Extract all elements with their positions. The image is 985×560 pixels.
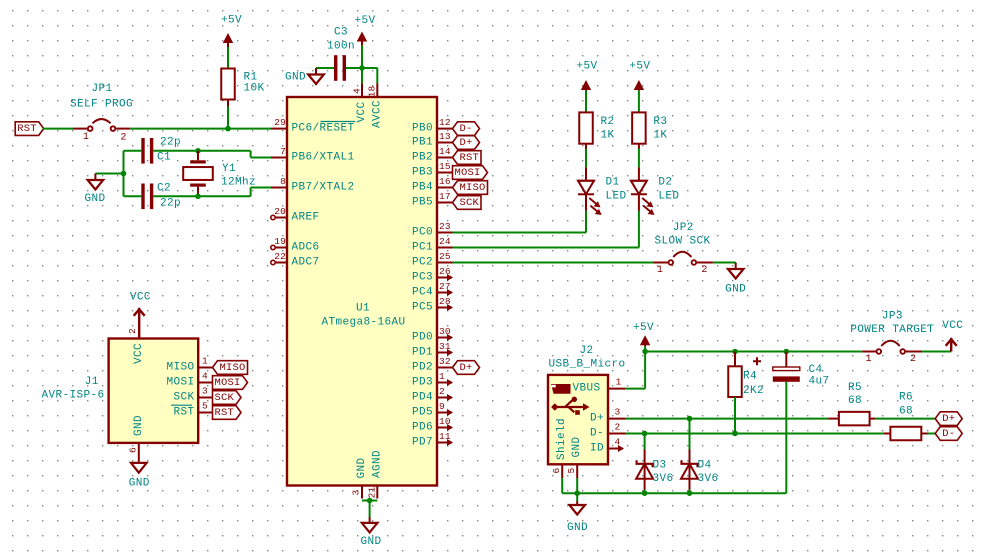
pin 4 stub (J1) xyxy=(198,382,213,384)
overline RST (J1) xyxy=(171,404,192,406)
svg-text:PD5: PD5 xyxy=(412,407,433,419)
svg-text:GND: GND xyxy=(285,72,306,84)
svg-text:D-: D- xyxy=(459,123,472,135)
svg-text:SELF PROG: SELF PROG xyxy=(70,99,133,111)
svg-text:PC2: PC2 xyxy=(412,257,433,269)
svg-text:18: 18 xyxy=(367,86,378,98)
svg-text:PD7: PD7 xyxy=(412,437,433,449)
svg-text:POWER TARGET: POWER TARGET xyxy=(850,324,934,336)
junction GND D3 xyxy=(642,490,648,496)
pin number 29 xyxy=(274,117,286,128)
pin 29 stub xyxy=(271,128,287,130)
pin name GND (J1) xyxy=(133,415,145,436)
pin name ID (J2) xyxy=(590,443,604,455)
svg-text:SCK: SCK xyxy=(459,197,479,209)
global label SCK (PB5) xyxy=(453,196,482,210)
power +5V (J2) xyxy=(633,322,654,346)
LED D1 xyxy=(578,177,627,216)
label SLOW SCK xyxy=(654,236,710,248)
pin number 6 (J1) xyxy=(128,447,139,453)
svg-text:100n: 100n xyxy=(327,41,355,53)
pin 13 stub xyxy=(437,142,453,144)
svg-text:PC6/RESET: PC6/RESET xyxy=(292,123,355,135)
wire GND rail xyxy=(562,492,786,494)
svg-text:2: 2 xyxy=(439,386,445,397)
pin number 19 xyxy=(274,236,286,247)
wire +5V to rail xyxy=(644,346,646,352)
pin name GND (3) xyxy=(356,457,368,478)
global label MOSI (PB3) xyxy=(453,166,488,180)
pin number 26 xyxy=(439,266,451,277)
svg-text:VCC: VCC xyxy=(356,101,368,122)
wire RST label to JP1 pin 1 xyxy=(43,128,74,130)
svg-text:MOSI: MOSI xyxy=(214,377,240,389)
svg-text:2: 2 xyxy=(701,265,707,276)
label J1 xyxy=(85,376,99,388)
svg-text:10: 10 xyxy=(439,416,451,427)
svg-text:GND: GND xyxy=(133,415,145,436)
wire C2 to Y1 bottom xyxy=(153,195,250,197)
svg-text:6: 6 xyxy=(128,447,139,453)
wire D1 to PC xyxy=(453,194,587,232)
power +5V (R3) xyxy=(629,61,650,91)
junction left GND node xyxy=(121,171,127,177)
svg-text:J2: J2 xyxy=(579,345,593,357)
svg-text:J1: J1 xyxy=(85,376,99,388)
power +5V (R2) xyxy=(576,61,597,91)
svg-text:LED: LED xyxy=(606,191,627,203)
svg-text:4u7: 4u7 xyxy=(809,375,830,387)
svg-text:D+: D+ xyxy=(459,137,472,149)
pin 31 stub xyxy=(437,349,453,356)
svg-text:PC1: PC1 xyxy=(412,242,433,254)
pin name PB5 xyxy=(412,197,433,209)
ground (U1) xyxy=(360,517,381,548)
pin name PD7 xyxy=(412,437,433,449)
wire VBUS to rail xyxy=(626,352,645,389)
svg-text:AVR-ISP-6: AVR-ISP-6 xyxy=(41,390,104,402)
svg-text:+5V: +5V xyxy=(576,61,597,73)
pin 2 stub xyxy=(437,394,453,401)
svg-text:5: 5 xyxy=(566,467,577,473)
pin 7 stub xyxy=(271,157,287,159)
pin number 3 xyxy=(351,489,362,495)
pin name D- (J2) xyxy=(590,428,604,440)
svg-text:+5V: +5V xyxy=(221,15,242,27)
svg-text:4: 4 xyxy=(615,437,621,448)
jumper JP1 arc xyxy=(93,119,111,123)
ground (J1) xyxy=(129,463,150,490)
pin name PC5 xyxy=(412,302,433,314)
svg-text:1: 1 xyxy=(657,265,663,276)
pin name VBUS (J2) xyxy=(573,383,601,395)
pin number 22 xyxy=(274,251,286,262)
svg-text:MOSI: MOSI xyxy=(454,167,480,179)
svg-text:MISO: MISO xyxy=(166,362,194,374)
resistor R2 xyxy=(579,112,614,143)
pin 28 stub xyxy=(437,304,453,311)
svg-text:25: 25 xyxy=(439,251,451,262)
wire AVCC pin 18 xyxy=(362,68,377,97)
global label SCK (J1) xyxy=(213,391,242,405)
wire JP1 pin2 to R1/pin29 xyxy=(130,128,271,130)
svg-text:VCC: VCC xyxy=(130,291,151,303)
pin number 9 xyxy=(439,401,445,412)
global label RST (PB2) xyxy=(453,151,482,165)
pin name RST (J1) xyxy=(173,407,194,419)
svg-text:PB5: PB5 xyxy=(412,197,433,209)
svg-text:ADC7: ADC7 xyxy=(292,257,320,269)
capacitor C2 xyxy=(141,183,181,210)
svg-text:4: 4 xyxy=(202,371,208,382)
diode D4 xyxy=(681,419,719,494)
pin name PD4 xyxy=(412,392,433,404)
wire R2 to D1 xyxy=(585,144,587,181)
capacitor C3 xyxy=(327,27,355,81)
resistor R3 xyxy=(632,112,667,143)
junction D3 top xyxy=(642,431,648,437)
pin 16 stub xyxy=(437,187,453,189)
svg-text:3: 3 xyxy=(351,489,362,495)
pin number 28 xyxy=(439,296,451,307)
op-amp U1 body (ATmega8-16AU) xyxy=(287,97,437,486)
resistor R6 xyxy=(884,391,928,440)
svg-text:VCC: VCC xyxy=(942,320,963,332)
pin 19 stub xyxy=(271,245,287,249)
svg-text:2: 2 xyxy=(910,354,916,365)
svg-text:24: 24 xyxy=(439,236,451,247)
pin 10 stub xyxy=(437,424,453,431)
svg-text:C1: C1 xyxy=(157,152,171,164)
svg-text:D3: D3 xyxy=(653,460,667,472)
pin name AVCC (18) xyxy=(371,100,383,128)
junction GND pin5 xyxy=(574,490,580,496)
svg-text:21: 21 xyxy=(367,487,378,499)
pin 1 stub (J1) xyxy=(198,367,213,369)
pin 32 stub xyxy=(437,367,453,369)
wire to GND (crystal) xyxy=(95,173,123,175)
pin name SCK (J1) xyxy=(173,392,194,404)
svg-text:D-: D- xyxy=(590,428,604,440)
pin name PB0 xyxy=(412,123,433,135)
label SELF PROG xyxy=(70,99,133,111)
svg-text:PB4: PB4 xyxy=(412,182,433,194)
pin 1 stub xyxy=(437,379,453,386)
label POWER TARGET xyxy=(850,324,934,336)
wire +5V to R2 xyxy=(585,91,587,113)
global label RST (J1) xyxy=(213,406,242,420)
LED D2 xyxy=(631,177,680,216)
svg-text:R6: R6 xyxy=(899,391,913,403)
junction rail C4 xyxy=(784,349,790,355)
pin 11 stub xyxy=(437,439,453,446)
wire C3 to GND xyxy=(316,67,334,69)
pin 5 stub (J1) xyxy=(198,412,213,414)
label U1 xyxy=(356,303,370,315)
wire Y1 bottom lead xyxy=(197,187,199,197)
svg-text:+5V: +5V xyxy=(633,322,654,334)
svg-text:PB1: PB1 xyxy=(412,137,433,149)
svg-text:LED: LED xyxy=(658,191,679,203)
svg-text:1K: 1K xyxy=(653,130,667,142)
pin name PB7/XTAL2 xyxy=(292,182,355,194)
svg-text:1: 1 xyxy=(83,132,89,143)
pin name PB4 xyxy=(412,182,433,194)
pin 9 stub xyxy=(437,409,453,416)
svg-text:D+: D+ xyxy=(590,413,604,425)
pin 26 stub xyxy=(437,274,453,281)
pin number 6 (J2) xyxy=(551,467,562,473)
label AVR-ISP-6 xyxy=(41,390,104,402)
svg-text:R3: R3 xyxy=(653,116,667,128)
svg-text:R5: R5 xyxy=(848,382,862,394)
svg-text:GND: GND xyxy=(84,193,105,205)
crystal Y1 xyxy=(183,160,256,188)
svg-text:D-: D- xyxy=(942,428,955,440)
jumper JP3 pin 2 xyxy=(900,349,922,365)
ground (C3) xyxy=(285,68,324,84)
pin name MISO (J1) xyxy=(166,362,194,374)
svg-text:ADC6: ADC6 xyxy=(292,242,320,254)
svg-text:SCK: SCK xyxy=(173,392,194,404)
pin name PC2 xyxy=(412,257,433,269)
wire R4 to D- row xyxy=(734,397,736,433)
ground (JP2) xyxy=(725,263,746,296)
connector J1 body xyxy=(109,339,199,443)
junction Y1 top xyxy=(195,148,201,154)
wire rail xyxy=(645,351,862,353)
pin 3 stub xyxy=(361,486,363,499)
svg-text:11: 11 xyxy=(439,431,451,442)
pin 2 stub (J2) xyxy=(608,422,626,434)
svg-text:PD4: PD4 xyxy=(412,392,433,404)
wire C1 left xyxy=(124,150,142,152)
svg-text:3: 3 xyxy=(615,407,621,418)
pin number 5 (J2) xyxy=(566,467,577,473)
svg-text:68: 68 xyxy=(899,406,913,418)
pin name PD3 xyxy=(412,377,433,389)
pin name PC6/RESET xyxy=(292,123,355,135)
svg-text:PC5: PC5 xyxy=(412,302,433,314)
svg-text:PB6/XTAL1: PB6/XTAL1 xyxy=(292,152,355,164)
global label D+ (right) xyxy=(935,412,962,426)
junction D4 top xyxy=(687,416,693,422)
pin 27 stub xyxy=(437,289,453,296)
pin number 2 xyxy=(439,386,445,397)
wire D2 to PC xyxy=(453,194,639,247)
wire JP3 to VCC xyxy=(922,351,951,353)
svg-text:27: 27 xyxy=(439,281,451,292)
ground (crystal) xyxy=(84,174,105,205)
pin number 11 xyxy=(439,431,451,442)
pin number 32 xyxy=(439,356,451,367)
global label D+ (PB1) xyxy=(453,136,480,150)
svg-text:3: 3 xyxy=(202,386,208,397)
svg-text:R4: R4 xyxy=(743,371,757,383)
svg-text:AREF: AREF xyxy=(292,212,320,224)
pin name PD0 xyxy=(412,332,433,344)
svg-text:JP2: JP2 xyxy=(673,222,694,234)
junction rail VBUS xyxy=(642,349,648,355)
junction chip GND xyxy=(367,498,373,504)
pin name D+ (J2) xyxy=(590,413,604,425)
svg-text:2: 2 xyxy=(120,133,126,144)
svg-text:R2: R2 xyxy=(601,116,615,128)
pin number 15 xyxy=(439,161,451,172)
global label MISO (PB4) xyxy=(453,181,488,195)
label ATmega8-16AU xyxy=(321,317,405,329)
svg-text:3V6: 3V6 xyxy=(653,473,674,485)
jumper JP3 pin 1 xyxy=(862,349,881,365)
pin number 4 (J1) xyxy=(202,371,208,382)
svg-text:GND: GND xyxy=(571,436,583,457)
wire R5 to D+ label xyxy=(875,418,935,420)
pin name AGND (21) xyxy=(371,450,383,478)
svg-text:PB0: PB0 xyxy=(412,123,433,135)
wire C1-C2 left vertical xyxy=(123,151,125,197)
svg-text:PD3: PD3 xyxy=(412,377,433,389)
junction R1 bottom xyxy=(225,126,231,132)
pin number 16 xyxy=(439,176,451,187)
pin name VCC (J1) xyxy=(133,343,145,364)
pin 6 stub (J2) xyxy=(561,464,563,478)
svg-text:PB7/XTAL2: PB7/XTAL2 xyxy=(292,182,355,194)
wire J2 pin6 down xyxy=(561,478,563,493)
junction VCC node xyxy=(359,65,365,71)
svg-text:ID: ID xyxy=(590,443,604,455)
power +5V (VCC) xyxy=(354,15,375,46)
svg-text:C2: C2 xyxy=(157,183,171,195)
wire PC2 to JP2 xyxy=(453,262,654,264)
svg-text:+5V: +5V xyxy=(354,15,375,27)
pin name PB1 xyxy=(412,137,433,149)
jumper JP1 pin 2 xyxy=(111,126,131,143)
svg-text:10K: 10K xyxy=(244,83,265,95)
svg-text:PD6: PD6 xyxy=(412,422,433,434)
icon VBUS plug xyxy=(551,384,571,394)
pin number 3 (J1) xyxy=(202,386,208,397)
svg-text:PD0: PD0 xyxy=(412,332,433,344)
svg-text:22p: 22p xyxy=(160,198,181,210)
svg-text:ATmega8-16AU: ATmega8-16AU xyxy=(321,317,405,329)
pin number 23 xyxy=(439,221,451,232)
svg-text:PD1: PD1 xyxy=(412,347,433,359)
svg-text:D2: D2 xyxy=(658,177,672,189)
svg-text:VCC: VCC xyxy=(133,343,145,364)
svg-text:RST: RST xyxy=(214,407,234,419)
wire GND join xyxy=(362,501,377,518)
wire XTAL2 jog xyxy=(251,188,271,197)
power VCC (target) xyxy=(942,320,963,352)
pin name PD6 xyxy=(412,422,433,434)
power VCC (J1) xyxy=(130,291,151,338)
overline RESET xyxy=(321,121,356,123)
pin name AREF xyxy=(292,212,320,224)
pin number 2 (J1) xyxy=(127,328,138,334)
resistor R4 xyxy=(728,352,764,398)
svg-text:2: 2 xyxy=(127,328,138,334)
svg-text:GND: GND xyxy=(725,284,746,296)
pin number 14 xyxy=(439,146,451,157)
svg-text:32: 32 xyxy=(439,356,451,367)
svg-text:U1: U1 xyxy=(356,303,370,315)
wire D+ row xyxy=(626,418,829,420)
svg-text:28: 28 xyxy=(439,296,451,307)
svg-text:12: 12 xyxy=(439,117,451,128)
wire JP2 to GND xyxy=(713,262,736,264)
pin name ADC7 xyxy=(292,257,320,269)
pin 3 stub (J1) xyxy=(198,397,213,399)
label J2 xyxy=(579,345,593,357)
pin 15 stub xyxy=(437,172,453,174)
svg-text:JP3: JP3 xyxy=(882,311,903,323)
pin 23 stub xyxy=(437,232,453,234)
svg-text:C3: C3 xyxy=(334,27,348,39)
connector J2 body xyxy=(548,375,608,464)
global label D- (PB0) xyxy=(453,122,480,136)
svg-text:31: 31 xyxy=(439,341,451,352)
power +5V (R1) xyxy=(221,15,242,48)
global label D+ (PD2) xyxy=(453,361,480,375)
svg-text:23: 23 xyxy=(439,221,451,232)
svg-text:19: 19 xyxy=(274,236,286,247)
svg-text:14: 14 xyxy=(439,146,451,157)
svg-text:SLOW SCK: SLOW SCK xyxy=(654,236,710,248)
pin number 1 xyxy=(439,371,445,382)
svg-text:26: 26 xyxy=(439,266,451,277)
pin number 31 xyxy=(439,341,451,352)
pin 14 stub xyxy=(437,157,453,159)
svg-text:Shield: Shield xyxy=(556,418,568,460)
svg-text:7: 7 xyxy=(280,146,286,157)
jumper JP2 pin 1 xyxy=(653,260,673,276)
pin number 4 xyxy=(352,88,363,94)
wire D- row xyxy=(626,433,885,435)
svg-text:1: 1 xyxy=(616,377,622,388)
jumper JP1 pin 1 xyxy=(73,126,92,143)
svg-text:GND: GND xyxy=(129,478,150,490)
label USB_B_Micro xyxy=(548,358,625,370)
pin 30 stub xyxy=(437,334,453,341)
pin name PC3 xyxy=(412,272,433,284)
pin 20 stub xyxy=(271,215,287,219)
svg-text:20: 20 xyxy=(274,206,286,217)
svg-text:USB_B_Micro: USB_B_Micro xyxy=(548,358,625,370)
wire Y1 top lead xyxy=(197,151,199,161)
global label RST (left) xyxy=(15,122,44,136)
svg-text:16: 16 xyxy=(439,176,451,187)
junction R4 D- xyxy=(732,431,738,437)
svg-text:1: 1 xyxy=(202,356,208,367)
svg-text:22p: 22p xyxy=(160,137,181,149)
pin name MOSI (J1) xyxy=(166,377,194,389)
svg-text:Y1: Y1 xyxy=(222,163,236,175)
svg-text:2: 2 xyxy=(615,422,621,433)
pin number 18 xyxy=(367,86,378,98)
svg-text:GND: GND xyxy=(360,536,381,548)
pin number 8 xyxy=(280,176,286,187)
pin name PD5 xyxy=(412,407,433,419)
pin number 10 xyxy=(439,416,451,427)
svg-text:9: 9 xyxy=(439,401,445,412)
pin number 21 xyxy=(367,487,378,499)
wire C1 to Y1 top xyxy=(153,150,250,152)
jumper JP2 pin 2 xyxy=(692,260,713,276)
svg-text:68: 68 xyxy=(848,395,862,407)
svg-text:D+: D+ xyxy=(942,413,955,425)
pin number 1 (J1) xyxy=(202,356,208,367)
svg-text:29: 29 xyxy=(274,117,286,128)
